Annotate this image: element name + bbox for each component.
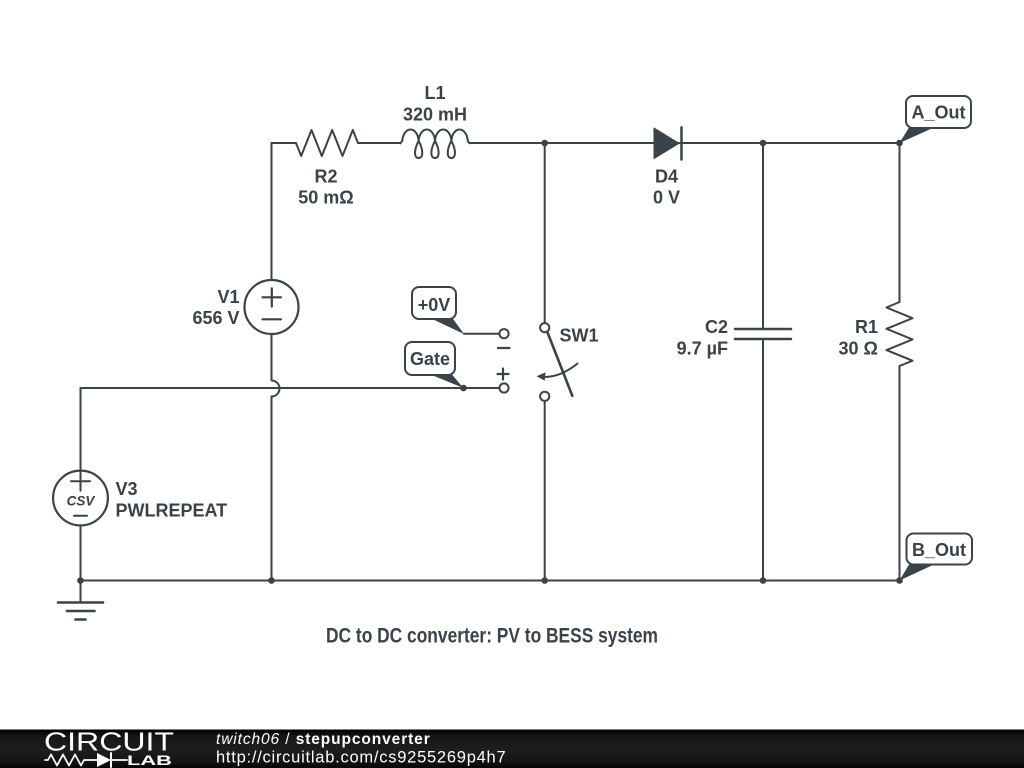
svg-text:SW1: SW1 — [560, 326, 599, 346]
svg-text:50 mΩ: 50 mΩ — [298, 188, 353, 208]
footer bar — [0, 730, 1024, 768]
svg-text:LAB: LAB — [127, 752, 172, 768]
svg-text:B_Out: B_Out — [912, 540, 966, 560]
svg-text:+0V: +0V — [418, 295, 451, 315]
svg-text:R1: R1 — [855, 317, 878, 337]
node top switch junction — [541, 140, 548, 147]
wire V1 bottom lead with hop over gate wire — [272, 334, 280, 581]
title text — [326, 625, 658, 648]
wire C2 top lead — [762, 143, 764, 329]
resistor R1 — [887, 302, 913, 366]
label D4 value 0 V — [653, 167, 680, 208]
wire switch bottom lead — [544, 401, 546, 581]
flag B_Out — [900, 534, 973, 581]
polarity plus of switch control — [498, 369, 509, 380]
terminal +0V circle — [499, 329, 508, 338]
wire V3 top lead — [80, 388, 82, 471]
wire V1 top lead — [271, 143, 273, 280]
diode D4 — [654, 127, 682, 159]
svg-text:D4: D4 — [655, 167, 678, 187]
svg-text:V1: V1 — [217, 287, 239, 307]
resistor R2 — [296, 130, 358, 156]
svg-text:C2: C2 — [705, 317, 728, 337]
svg-text:R2: R2 — [314, 167, 337, 187]
terminal gate circle — [499, 383, 508, 392]
svg-text:L1: L1 — [424, 83, 445, 103]
inductor L1 — [400, 130, 469, 158]
wire R2 to L1 — [358, 142, 400, 144]
label R2 value 50 mΩ — [298, 167, 353, 208]
node top C2 junction — [760, 140, 767, 147]
label SW1 — [560, 326, 599, 346]
node V3 ground junction — [77, 577, 84, 584]
wire switch top lead — [544, 143, 546, 323]
wire L1 to A_Out corner — [470, 142, 900, 144]
source V1 — [245, 280, 299, 334]
wire C2 bottom lead — [762, 339, 764, 581]
wire bottom rail — [81, 580, 900, 582]
node switch bottom junction — [541, 577, 548, 584]
wire V3 bottom lead — [80, 525, 82, 580]
capacitor C2 — [735, 329, 791, 339]
svg-text:656 V: 656 V — [192, 308, 239, 328]
svg-text:twitch06 / stepupconverter: twitch06 / stepupconverter — [216, 731, 431, 748]
footer text user and circuit name — [216, 731, 431, 748]
svg-text:Gate: Gate — [410, 349, 450, 369]
label V3 value PWLREPEAT — [116, 479, 228, 520]
ground — [58, 581, 103, 620]
svg-text:CSV: CSV — [67, 494, 96, 509]
label V1 value 656 V — [192, 287, 239, 328]
svg-text:9.7 µF: 9.7 µF — [677, 338, 728, 358]
node gate junction — [460, 385, 467, 392]
source V3 — [53, 471, 108, 526]
label L1 value 320 mH — [403, 83, 467, 125]
svg-text:PWLREPEAT: PWLREPEAT — [116, 500, 228, 520]
polarity minus of switch control — [498, 347, 510, 349]
svg-text:http://circuitlab.com/cs925526: http://circuitlab.com/cs9255269p4h7 — [216, 749, 506, 767]
label R1 value 30 Ω — [839, 317, 878, 358]
switch SW1 — [537, 323, 578, 401]
svg-text:320 mH: 320 mH — [403, 105, 467, 125]
wire +0V lead — [464, 333, 499, 335]
wire top-left segment — [272, 142, 297, 144]
flag A_Out — [900, 96, 972, 143]
label C2 value 9.7 µF — [677, 317, 728, 358]
flag Gate — [405, 342, 464, 388]
svg-text:DC to DC converter: PV to BESS: DC to DC converter: PV to BESS system — [326, 625, 658, 648]
wire gate horizontal — [81, 387, 500, 389]
svg-text:A_Out: A_Out — [912, 103, 966, 123]
footer url — [216, 749, 506, 767]
footer logo CIRCUIT — [44, 727, 174, 757]
node A_Out corner — [896, 140, 903, 147]
footer logo resistor-diode symbol and LAB — [45, 752, 172, 768]
node B_Out corner — [896, 577, 903, 584]
svg-text:V3: V3 — [116, 479, 138, 499]
flag +0V — [412, 287, 464, 334]
node C2 bottom junction — [760, 577, 767, 584]
node V1 bottom junction — [268, 577, 275, 584]
svg-text:30 Ω: 30 Ω — [839, 338, 878, 358]
svg-text:0 V: 0 V — [653, 188, 680, 208]
wire R1 bottom lead — [899, 366, 901, 581]
wire R1 top lead — [899, 143, 901, 302]
